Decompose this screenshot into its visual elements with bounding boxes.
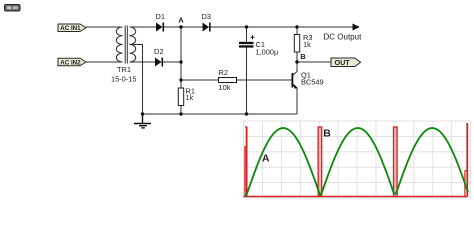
svg-text:R2: R2 [219,68,228,77]
svg-text:DC Output: DC Output [324,32,363,41]
svg-text:1k: 1k [186,93,194,102]
svg-text:OUT: OUT [335,58,351,67]
svg-text:A: A [262,153,270,165]
svg-text:15-0-15: 15-0-15 [111,74,136,83]
svg-text:B: B [323,128,331,140]
svg-text:TR1: TR1 [117,65,131,74]
svg-text:1,000µ: 1,000µ [256,47,279,56]
svg-text:AC IN2: AC IN2 [60,59,81,66]
svg-text:AC IN1: AC IN1 [60,25,81,32]
svg-text:B: B [300,52,306,61]
svg-text:1k: 1k [303,40,311,49]
svg-text:10k: 10k [219,83,231,92]
svg-text:D2: D2 [154,47,163,56]
svg-text:BC549: BC549 [301,78,324,87]
svg-text:A: A [178,16,184,25]
svg-text:D3: D3 [202,12,211,21]
svg-text:D1: D1 [156,12,165,21]
